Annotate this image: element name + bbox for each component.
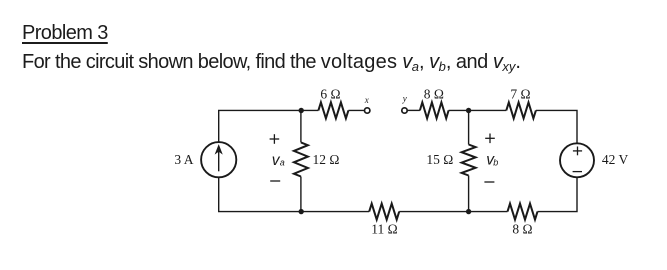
terminal y (open circle)	[402, 108, 407, 113]
resistor R1 6-ohm (top left)	[318, 102, 348, 118]
svg-text:42 V: 42 V	[602, 152, 629, 167]
resistor R5 15-ohm (vertical)	[462, 145, 476, 176]
minus sign inside source	[573, 171, 582, 173]
svg-text:3 A: 3 A	[174, 152, 193, 167]
wire node B to 7-ohm resistor	[469, 109, 507, 111]
title: Problem 3	[22, 22, 108, 45]
current source I1 3A (circle)	[201, 142, 236, 177]
wire current source bottom to bottom-left corner	[219, 177, 302, 211]
svg-text:8 Ω: 8 Ω	[512, 222, 532, 237]
svg-text:vb: vb	[486, 152, 498, 169]
current source arrow	[215, 145, 222, 171]
resistor R4 12-ohm (vertical)	[294, 142, 308, 176]
svg-text:11 Ω: 11 Ω	[371, 222, 397, 237]
wire bottom-left to 11-ohm	[301, 211, 369, 213]
svg-text:6 Ω: 6 Ω	[320, 87, 340, 102]
voltage source V1 42V (circle)	[560, 143, 594, 177]
wire voltage source bottom to bottom-right corner	[538, 177, 578, 211]
wire 15-ohm down to bottom node	[468, 176, 470, 212]
polarity minus for vb	[484, 181, 494, 183]
resistor R7 8-ohm (bottom)	[508, 204, 538, 220]
wire node A to 6-ohm resistor	[301, 109, 318, 111]
polarity minus for va	[270, 180, 280, 182]
wire node B down to 15-ohm	[468, 110, 470, 144]
node A (junction dot top)	[299, 108, 304, 113]
node B (junction dot top)	[466, 108, 471, 113]
wire bottom node to 8-ohm bottom	[469, 211, 508, 213]
node (junction dot bottom left)	[299, 209, 304, 214]
wire top-left segment (left rail top corner to node A)	[219, 110, 302, 142]
polarity plus for va	[270, 134, 280, 144]
svg-text:va: va	[272, 152, 285, 169]
svg-text:y: y	[402, 94, 407, 104]
wire 6-ohm to terminal x	[348, 109, 364, 111]
plus sign inside source	[573, 147, 582, 156]
terminal x (open circle)	[365, 108, 370, 113]
prompt text line	[22, 51, 520, 76]
resistor R2 8-ohm (top middle)	[420, 102, 449, 118]
wire 7-ohm to top-right corner down to source	[536, 110, 577, 143]
svg-text:x: x	[364, 95, 369, 105]
node (junction dot bottom right)	[466, 209, 471, 214]
svg-text:8 Ω: 8 Ω	[424, 87, 444, 102]
svg-text:12 Ω: 12 Ω	[313, 152, 340, 167]
wire 12-ohm down to bottom node	[300, 177, 302, 212]
wire terminal y to 8-ohm resistor	[407, 109, 420, 111]
svg-text:7 Ω: 7 Ω	[510, 87, 530, 102]
svg-text:15 Ω: 15 Ω	[426, 152, 453, 167]
polarity plus for vb	[485, 134, 495, 144]
wire node A down to 12-ohm	[300, 110, 302, 142]
resistor R3 7-ohm (top right)	[506, 102, 536, 118]
resistor R6 11-ohm (bottom)	[369, 204, 399, 220]
wire 11-ohm to bottom node	[399, 211, 468, 213]
wire 8-ohm to node B	[449, 109, 469, 111]
